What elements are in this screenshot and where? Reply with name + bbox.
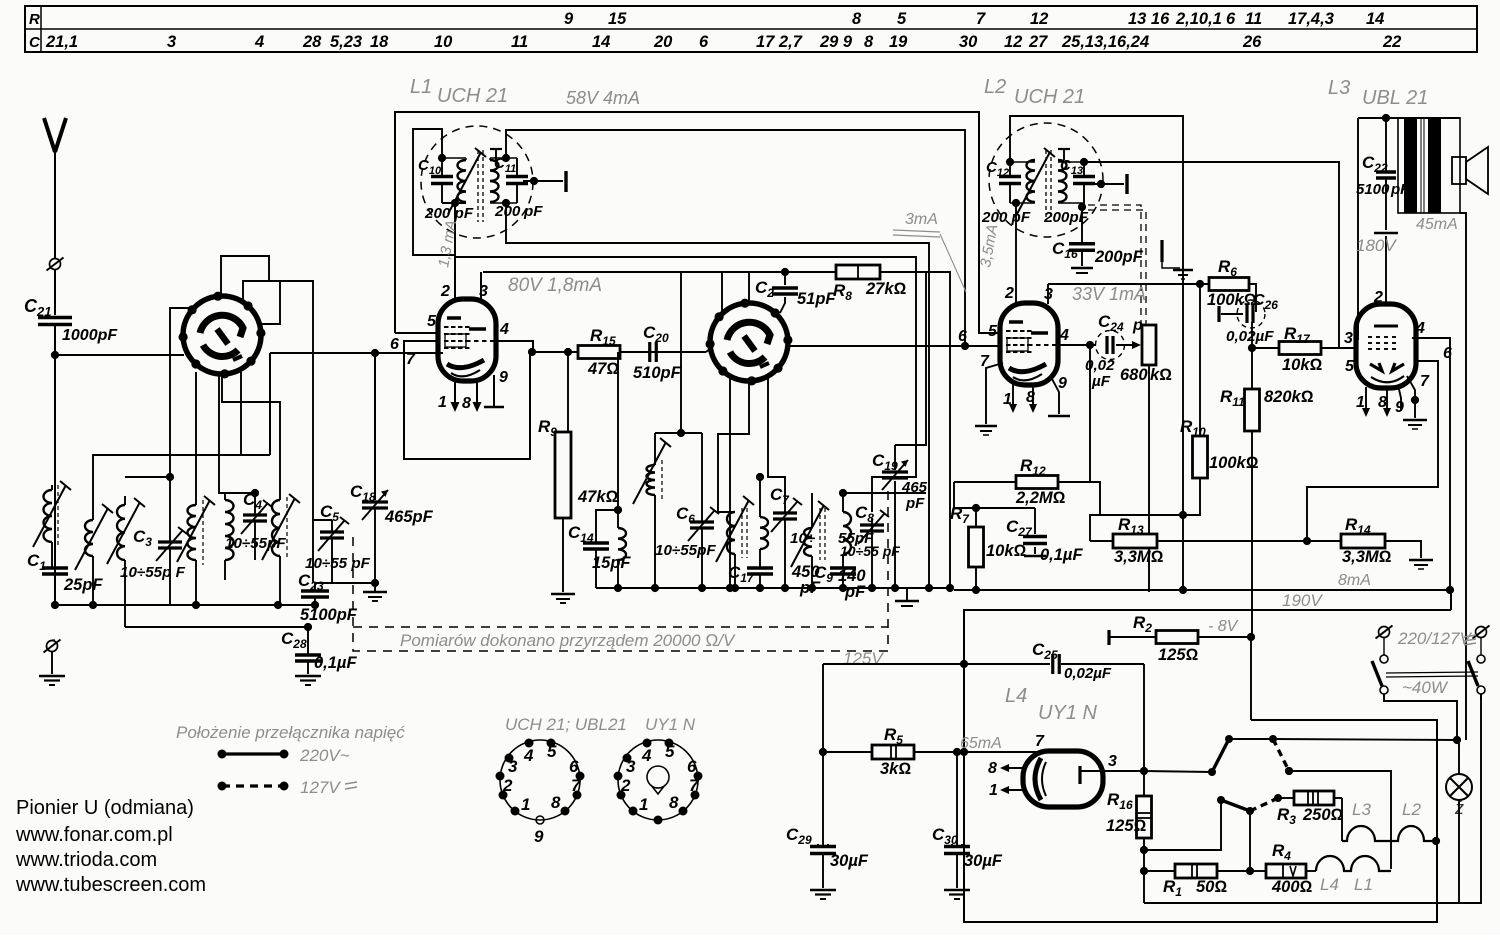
svg-text:UY1 N: UY1 N <box>645 715 696 734</box>
wire S1 main riser <box>269 353 271 455</box>
svg-text:0,1µF: 0,1µF <box>314 654 357 672</box>
wire C10 bottom <box>442 202 466 204</box>
svg-text:125V: 125V <box>843 649 884 668</box>
svg-text:L4: L4 <box>1005 685 1027 707</box>
svg-text:8mA: 8mA <box>1338 572 1371 589</box>
wire minus8V column <box>1250 637 1252 720</box>
tube V1 UCH21 <box>438 299 496 381</box>
node main line <box>371 349 379 357</box>
svg-text:R: R <box>29 11 40 28</box>
pin 2 lead tube1 <box>454 203 456 301</box>
wire C26 to R17 node <box>1251 322 1253 348</box>
node C9 bus <box>839 584 847 592</box>
wire selector pivots rail <box>1229 738 1273 740</box>
resistor R3 <box>1278 797 1294 799</box>
wire box A outer <box>395 112 1001 333</box>
svg-text:8: 8 <box>1378 394 1387 411</box>
lamp z <box>1446 774 1472 800</box>
svg-text:3kΩ: 3kΩ <box>880 760 911 778</box>
svg-text:7: 7 <box>406 351 416 368</box>
svg-text:3,3MΩ: 3,3MΩ <box>1342 548 1392 566</box>
svg-text:8: 8 <box>462 395 471 412</box>
svg-text:17 2,7: 17 2,7 <box>756 33 803 51</box>
L1 secondary top tee <box>495 150 497 160</box>
wire C11 bottom <box>490 202 517 204</box>
capacitor C17 <box>747 566 773 569</box>
osc grid coil <box>618 528 626 560</box>
svg-text:2: 2 <box>502 776 513 795</box>
svg-text:12: 12 <box>1030 10 1048 28</box>
svg-text:3: 3 <box>167 33 176 51</box>
wire S2 top to 80V rail <box>748 272 750 303</box>
svg-text:3: 3 <box>1108 753 1117 770</box>
table row divider <box>25 28 1477 30</box>
svg-text:200pF: 200pF <box>1094 248 1144 266</box>
node heater left <box>960 660 968 668</box>
node C18 bottom <box>371 579 379 587</box>
wire C4 stem <box>254 493 256 515</box>
grid cap terminal tube2 side <box>564 171 567 192</box>
wire lower bus left <box>953 589 955 591</box>
svg-text:www.tubescreen.com: www.tubescreen.com <box>15 874 206 896</box>
node C1 bus <box>51 601 59 609</box>
svg-text:5: 5 <box>988 323 998 340</box>
svg-text:125Ω: 125Ω <box>1158 646 1199 664</box>
trimmer C6 <box>701 433 703 522</box>
node R17 <box>1248 344 1256 352</box>
L2 box <box>1010 116 1183 590</box>
node C30 tap <box>953 748 961 756</box>
node C13 top <box>1080 158 1088 166</box>
svg-text:25,13,16,24: 25,13,16,24 <box>1061 33 1149 51</box>
svg-text:UCH 21: UCH 21 <box>437 85 508 107</box>
tube V4 UY1N <box>1023 751 1103 807</box>
wire R6 to C26 <box>1249 284 1256 312</box>
svg-text:6: 6 <box>958 328 967 345</box>
wire detector line <box>1084 162 1339 348</box>
svg-text:80V 1,8mA: 80V 1,8mA <box>508 275 602 296</box>
wire transformer return <box>1460 213 1466 740</box>
node pin4 <box>1086 341 1094 349</box>
svg-text:15: 15 <box>608 10 627 28</box>
wire SW top link <box>843 492 926 494</box>
node L2 end <box>1432 837 1440 845</box>
wire S1 top loop <box>221 256 269 296</box>
resistor R11 <box>1251 348 1253 390</box>
svg-text:6: 6 <box>1443 345 1452 362</box>
node bus end <box>925 584 933 592</box>
190V bus <box>954 590 1451 610</box>
node L1 bottom <box>451 199 459 207</box>
pin 9 lead tube2 <box>1051 377 1059 414</box>
svg-text:µF: µF <box>1091 373 1111 390</box>
capacitor C21 <box>38 316 72 320</box>
wire lamp bottom <box>1458 800 1460 903</box>
pin 3 lead tube1 <box>480 272 482 302</box>
osc transformer left winding <box>727 512 735 554</box>
wire C25 column <box>1143 664 1145 771</box>
ground C30 <box>944 889 970 891</box>
osc ground bus <box>596 587 950 589</box>
wire C13 top <box>1010 161 1035 163</box>
resistor R6 <box>1209 278 1249 291</box>
socket UY1N <box>618 740 698 820</box>
svg-text:L4: L4 <box>1320 875 1339 894</box>
wire C28 row <box>125 626 308 628</box>
svg-text:47kΩ: 47kΩ <box>577 488 619 506</box>
capacitor C28 <box>307 627 309 655</box>
node AVC junction <box>1179 511 1187 519</box>
resistor R2 <box>1107 630 1110 645</box>
node C4 <box>251 489 259 497</box>
node pin4 junction <box>528 348 536 356</box>
node C13 bottom <box>1078 203 1086 211</box>
antenna ground connector <box>47 641 58 652</box>
svg-text:4: 4 <box>523 746 534 765</box>
node R14 <box>1303 537 1311 545</box>
node R7 <box>972 504 980 512</box>
svg-text:10: 10 <box>434 33 453 51</box>
legend 220V <box>218 750 227 759</box>
svg-text:3: 3 <box>1344 330 1353 347</box>
table column divider <box>40 6 42 52</box>
svg-text:50Ω: 50Ω <box>1196 878 1227 896</box>
coil ant 5 <box>272 500 280 556</box>
node SW tr bus <box>808 584 816 592</box>
wire C22 top <box>1358 117 1460 119</box>
svg-text:1: 1 <box>521 795 530 814</box>
svg-text:8: 8 <box>988 760 997 777</box>
variable capacitor C19 <box>894 445 896 470</box>
svg-text:20: 20 <box>653 33 673 51</box>
resistor R17 <box>1252 347 1279 349</box>
wire selector lower-left <box>1144 800 1221 850</box>
L2 secondary winding <box>1058 160 1067 202</box>
svg-text:47Ω: 47Ω <box>587 360 619 378</box>
chassis C22 <box>1374 232 1398 235</box>
wire S1 left contact riser <box>170 308 192 477</box>
osc transformer core <box>741 508 743 558</box>
coil ant 4 <box>188 505 196 560</box>
svg-text:6: 6 <box>1226 10 1236 28</box>
variable capacitor C18 <box>362 500 388 503</box>
svg-text:51pF: 51pF <box>797 290 836 308</box>
svg-text:220/127V: 220/127V <box>1397 629 1472 648</box>
svg-text:Pomiarów dokonano przyrządem 2: Pomiarów dokonano przyrządem 20000 Ω/V <box>400 631 736 650</box>
svg-text:Położenie przełącznika napięć: Położenie przełącznika napięć <box>176 723 405 742</box>
svg-text:L1: L1 <box>1354 875 1373 894</box>
wire R16 bottom loop <box>1144 694 1481 903</box>
svg-text:11: 11 <box>511 33 528 51</box>
svg-text:8: 8 <box>864 33 874 51</box>
svg-text:250Ω: 250Ω <box>1302 806 1344 824</box>
pin 9 lead tube3 <box>1398 385 1401 411</box>
capacitor C13 <box>1083 162 1085 176</box>
svg-text:kΩ: kΩ <box>1150 366 1172 384</box>
L2 secondary tee <box>1063 150 1065 160</box>
node C8 bus <box>868 584 876 592</box>
svg-text:0,02µF: 0,02µF <box>1226 328 1274 345</box>
svg-text:2,10,1: 2,10,1 <box>1175 10 1222 28</box>
pin 8 lead tube2 <box>1032 384 1034 407</box>
node pin7 <box>1411 396 1419 404</box>
wire C11 top <box>442 157 466 159</box>
pin 1 lead tube3 <box>1365 387 1367 411</box>
wire 80V box <box>483 272 950 588</box>
svg-text:220V~: 220V~ <box>299 746 350 765</box>
svg-text:25pF: 25pF <box>63 576 103 594</box>
node C14 <box>614 506 622 514</box>
svg-text:L3: L3 <box>1328 77 1350 99</box>
inductor L3 L2 chokes <box>1341 798 1343 841</box>
band switch S2 wafer <box>710 303 788 381</box>
svg-text:7: 7 <box>976 10 986 28</box>
svg-text:1: 1 <box>989 782 998 799</box>
svg-text:L2: L2 <box>1402 800 1421 819</box>
svg-text:8: 8 <box>852 10 862 28</box>
node R6 R10 <box>1196 280 1204 288</box>
capacitor C2 <box>784 272 786 285</box>
wire C13 bottom <box>1058 202 1084 204</box>
coil ant 3 <box>117 505 125 560</box>
svg-text:27: 27 <box>1028 33 1048 51</box>
wire selector left contact <box>1144 771 1212 772</box>
node R5 left <box>819 748 827 756</box>
svg-text:9: 9 <box>534 827 544 846</box>
wire C21 to node <box>54 325 56 605</box>
svg-text:465pF: 465pF <box>384 508 434 526</box>
L1 primary winding <box>458 160 467 202</box>
wire S2 upper-left rim <box>721 272 723 314</box>
resistor R5 <box>823 751 872 753</box>
capacitor C1 <box>42 566 68 569</box>
svg-text:400Ω: 400Ω <box>1271 878 1313 896</box>
mains switch left <box>1379 627 1390 638</box>
node C23 bus <box>311 601 319 609</box>
svg-text:680: 680 <box>1120 366 1148 384</box>
svg-text:100kΩ: 100kΩ <box>1209 454 1259 472</box>
svg-text:L2: L2 <box>984 76 1006 98</box>
svg-text:58V 4mA: 58V 4mA <box>566 88 640 108</box>
legend 127V <box>218 782 227 791</box>
voltage selector <box>1225 735 1233 743</box>
svg-text:27kΩ: 27kΩ <box>865 280 907 298</box>
node coil4 bus <box>192 601 200 609</box>
svg-text:www.fonar.com.pl: www.fonar.com.pl <box>15 824 173 846</box>
svg-text:17,4,3: 17,4,3 <box>1288 10 1334 28</box>
wire C23 top link <box>315 582 375 584</box>
pin 7 lead tube2 <box>986 363 1003 424</box>
svg-text:29 9: 29 9 <box>819 33 853 51</box>
node C14 bus <box>614 584 622 592</box>
node box B junction <box>961 342 969 350</box>
svg-text:5100: 5100 <box>1356 181 1390 198</box>
inductor L4 L1 chokes <box>1306 870 1316 872</box>
trimmer C5 <box>313 519 332 521</box>
pin 8 lead tube4 <box>1006 767 1023 769</box>
node 190V <box>1179 586 1187 594</box>
heater 125V line <box>823 663 1050 665</box>
node C6 bus <box>698 584 706 592</box>
svg-text:12: 12 <box>1004 33 1022 51</box>
capacitor C20 <box>648 342 651 362</box>
svg-text:33V 1mA: 33V 1mA <box>1072 284 1146 304</box>
wire R13 rail <box>1090 540 1113 542</box>
svg-text:125Ω: 125Ω <box>1106 817 1147 835</box>
node box edge heater <box>960 748 968 756</box>
svg-text:26: 26 <box>1242 33 1262 51</box>
resistor R13 <box>1113 534 1157 548</box>
wire osc anode riser <box>680 272 682 433</box>
output transformer <box>1398 118 1460 213</box>
capacitor C16 <box>1081 207 1083 242</box>
table frame <box>25 6 1477 52</box>
wire selector center column <box>1249 811 1251 871</box>
cathode loop tube1 <box>404 341 530 459</box>
pin 8 lead tube1 <box>476 379 478 404</box>
svg-text:10kΩ: 10kΩ <box>986 542 1027 560</box>
node osc coil tap <box>756 473 764 481</box>
svg-text:p: p <box>1132 317 1143 334</box>
wire S1 contact down <box>93 372 241 520</box>
capacitor C14 loop <box>596 510 618 543</box>
svg-text:21,1: 21,1 <box>45 33 78 51</box>
svg-text:19: 19 <box>889 33 908 51</box>
svg-text:2: 2 <box>1373 289 1383 306</box>
svg-text:9: 9 <box>1395 399 1404 416</box>
node R16 lower1 <box>1140 846 1148 854</box>
node osc tr bus <box>731 584 739 592</box>
wire osc anode top <box>655 432 702 434</box>
node heater string <box>1246 867 1254 875</box>
svg-text:7: 7 <box>1420 373 1430 390</box>
svg-text:10÷55 pF: 10÷55 pF <box>305 555 371 572</box>
pin 3 lead tube4 <box>1080 770 1144 772</box>
node selector right <box>1285 767 1293 775</box>
node C22 <box>1382 114 1390 122</box>
pin 7 lead tube3 <box>1407 376 1415 418</box>
L1 secondary winding <box>490 160 499 202</box>
chassis osc bus <box>906 588 908 600</box>
L2 core <box>1045 150 1047 222</box>
SW transformer core <box>819 508 821 560</box>
svg-text:9: 9 <box>499 369 508 386</box>
svg-text:10÷55pF: 10÷55pF <box>655 542 716 559</box>
pin 4 lead tube3 <box>1412 338 1450 590</box>
pin 4 lead tube2 <box>1057 344 1096 346</box>
wire L1 output <box>523 180 563 182</box>
svg-text:UY1 N: UY1 N <box>1038 702 1097 724</box>
wire box C10 upper <box>413 129 455 255</box>
capacitor C26 with top-cap <box>1217 306 1220 322</box>
resistor R9 <box>567 352 569 432</box>
svg-text:3: 3 <box>626 757 636 776</box>
node osc anode <box>677 429 685 437</box>
wire S1 contact to C4 node <box>219 373 255 493</box>
node pin4 190V <box>1446 586 1454 594</box>
coil ant 1 <box>44 490 53 542</box>
resistor R1 <box>1144 870 1175 872</box>
svg-text:5: 5 <box>427 313 437 330</box>
svg-text:2: 2 <box>440 283 450 300</box>
svg-text:3: 3 <box>508 757 518 776</box>
svg-text:0,02µF: 0,02µF <box>1064 665 1112 682</box>
svg-text:1000pF: 1000pF <box>62 327 118 344</box>
svg-text:3: 3 <box>1044 286 1053 303</box>
wire S1 contact to coil L-ant <box>195 372 197 505</box>
svg-text:UCH 21; UBL21: UCH 21; UBL21 <box>505 715 627 734</box>
node C3 <box>166 473 174 481</box>
ground C28 <box>295 675 321 677</box>
svg-text:465: 465 <box>901 479 928 496</box>
wire lamp top <box>1458 740 1460 774</box>
wire pin4 AVC column <box>1089 345 1091 482</box>
wire antenna to C21 <box>54 270 56 315</box>
AVC dashed line <box>1088 205 1141 332</box>
node C28 <box>304 623 312 631</box>
capacitor C24 in dashed circle <box>1096 331 1125 360</box>
node C12 top <box>1006 158 1014 166</box>
svg-text:4: 4 <box>499 321 509 338</box>
svg-text:www.trioda.com: www.trioda.com <box>15 849 157 871</box>
svg-text:Pionier U (odmiana): Pionier U (odmiana) <box>16 797 194 819</box>
wire S2 bottom 3 <box>768 378 785 513</box>
SW transformer right winding <box>843 512 851 554</box>
resistor R16 <box>1143 771 1145 797</box>
svg-text:~40W: ~40W <box>1402 678 1449 697</box>
ground antenna <box>39 675 65 677</box>
antenna connector <box>50 259 61 270</box>
wire S1 upper right riser <box>243 281 313 303</box>
wire osc grid column <box>617 352 619 510</box>
wire C3 column <box>169 477 171 542</box>
wire S1 right rim riser <box>259 281 280 324</box>
pin 9 lead tube1 <box>493 375 495 407</box>
shield ground tee <box>1160 240 1163 262</box>
svg-text:5100pF: 5100pF <box>300 606 358 624</box>
band switch S1 wafer <box>183 296 261 374</box>
svg-text:8: 8 <box>669 793 679 812</box>
wire antenna node to band switch <box>55 354 184 356</box>
capacitor C10 <box>441 158 443 176</box>
svg-text:C: C <box>29 34 41 51</box>
wire S1 to coil5 riser <box>222 375 280 500</box>
osc anode coil <box>654 433 656 465</box>
svg-text:5,23: 5,23 <box>330 33 362 51</box>
node C10 top <box>438 154 446 162</box>
grid cap terminal UBL side <box>1125 174 1128 194</box>
coil ant 4b <box>225 500 234 560</box>
svg-text:820kΩ: 820kΩ <box>1264 388 1314 406</box>
tube V3 UBL21 <box>1356 304 1416 388</box>
chassis C16 <box>1071 267 1093 270</box>
svg-text:200 pF: 200 pF <box>981 209 1031 226</box>
speaker <box>1452 157 1466 184</box>
resistor R4 <box>1250 870 1266 872</box>
wire antenna column <box>54 355 56 485</box>
trimmer C4 <box>243 513 267 516</box>
pin 1 lead tube4 <box>1006 789 1023 791</box>
potentiometer p <box>1142 325 1156 365</box>
mains switch right <box>1476 627 1487 638</box>
power box outline <box>964 610 1451 922</box>
svg-text:3,3MΩ: 3,3MΩ <box>1114 548 1164 566</box>
node C7 bus <box>781 584 789 592</box>
pin 4 lead tube1 <box>495 341 533 352</box>
wire C18 column <box>374 352 376 500</box>
trimmer C8 <box>871 518 873 588</box>
svg-text:- 8V: - 8V <box>1208 618 1239 635</box>
